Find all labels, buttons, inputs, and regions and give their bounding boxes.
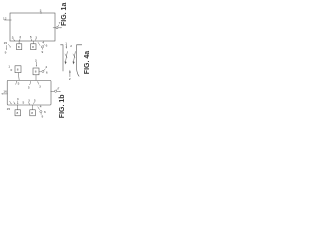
svg-text:4: 4 (40, 104, 42, 108)
svg-text:5: 5 (28, 85, 30, 89)
svg-text:6: 6 (46, 70, 48, 74)
svg-text:3: 3 (17, 97, 19, 101)
svg-text:FIG. 4a: FIG. 4a (84, 51, 90, 74)
svg-text:12: 12 (3, 17, 7, 21)
svg-text:9: 9 (42, 114, 44, 118)
svg-text:FIG. 1b: FIG. 1b (59, 94, 66, 118)
svg-text:3: 3 (35, 36, 37, 40)
svg-text:5: 5 (23, 100, 25, 104)
svg-text:6: 6 (46, 43, 48, 47)
svg-text:6: 6 (44, 110, 46, 114)
svg-text:15: 15 (7, 107, 11, 111)
svg-text:8: 8 (32, 45, 34, 49)
svg-text:5: 5 (30, 35, 32, 39)
svg-text:9: 9 (5, 50, 7, 54)
svg-text:3: 3 (39, 84, 41, 88)
svg-text:8: 8 (35, 70, 37, 74)
svg-text:3: 3 (35, 58, 37, 62)
svg-text:2: 2 (70, 44, 72, 48)
svg-text:1: 1 (65, 41, 67, 45)
svg-text:3: 3 (28, 99, 30, 103)
svg-text:2: 2 (69, 77, 71, 81)
svg-text:8: 8 (17, 68, 19, 72)
svg-text:8: 8 (18, 45, 20, 49)
svg-text:0: 0 (11, 68, 13, 72)
svg-text:3: 3 (40, 8, 42, 12)
svg-text:5: 5 (34, 99, 36, 103)
svg-text:5: 5 (18, 82, 20, 86)
svg-text:7: 7 (58, 86, 60, 90)
svg-text:8: 8 (31, 111, 33, 115)
svg-text:FIG. 1a: FIG. 1a (61, 3, 68, 26)
svg-text:4: 4 (45, 65, 47, 69)
svg-text:15: 15 (4, 41, 8, 45)
svg-text:9: 9 (42, 50, 44, 54)
svg-text:8: 8 (17, 111, 19, 115)
svg-text:4: 4 (42, 40, 44, 44)
svg-text:5: 5 (12, 36, 14, 40)
svg-text:16: 16 (3, 89, 7, 93)
svg-text:3: 3 (19, 35, 21, 39)
